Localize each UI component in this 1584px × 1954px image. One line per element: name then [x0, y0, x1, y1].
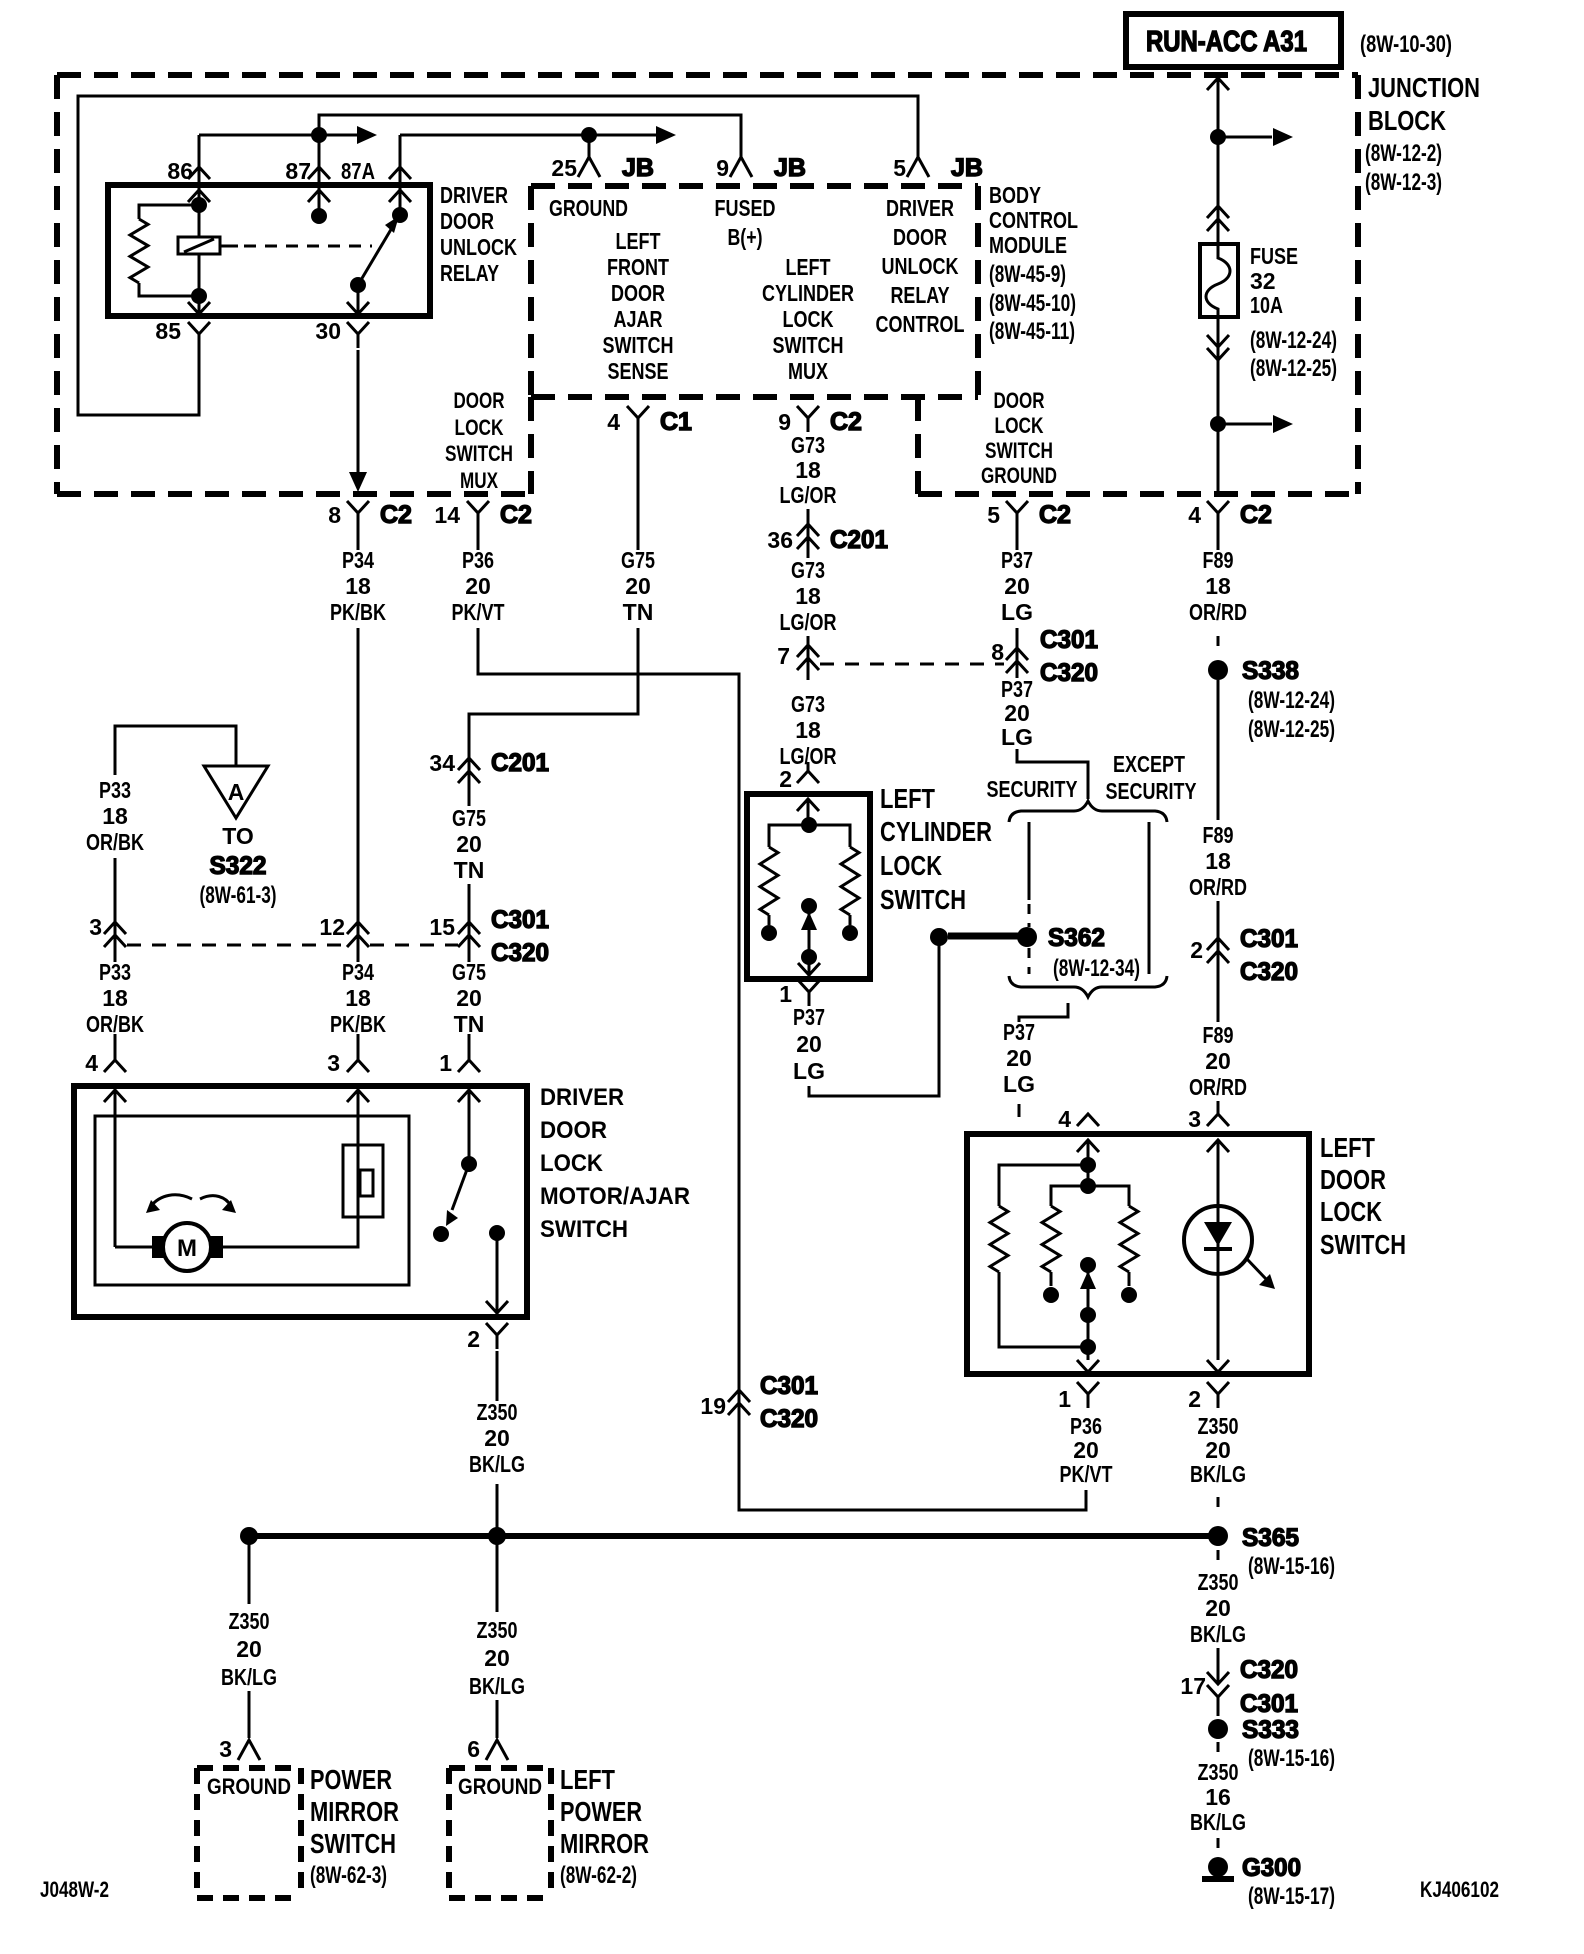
dashed connector line C301/C320 left [127, 944, 458, 947]
wire cylinder pin1 to S362 [809, 945, 939, 1096]
sheet number J048W-2 [40, 1877, 109, 1902]
connector pin 4 C2 [1188, 501, 1272, 550]
svg-text:20: 20 [1205, 1595, 1231, 1621]
wire label F89 18 OR/RD upper [1189, 547, 1247, 625]
wire brace to P37 label [1019, 1003, 1068, 1022]
svg-text:LOCK: LOCK [783, 306, 834, 332]
wire relay 30 to JB edge [349, 350, 367, 492]
svg-text:F89: F89 [1203, 547, 1234, 573]
junction dot below S362 link [930, 928, 948, 946]
wire motor pin 3 internal [223, 1145, 358, 1247]
svg-text:C320: C320 [1240, 1656, 1298, 1684]
wire label P37 20 LG cyl [793, 1004, 825, 1084]
svg-text:34: 34 [429, 750, 455, 776]
svg-text:TN: TN [623, 599, 654, 625]
svg-text:36: 36 [767, 527, 793, 553]
svg-text:18: 18 [1205, 848, 1231, 874]
svg-text:LOCK: LOCK [455, 415, 504, 440]
svg-text:G73: G73 [791, 691, 825, 717]
svg-text:DOOR: DOOR [611, 280, 665, 306]
wire label P36 20 PK/VT [452, 547, 505, 625]
svg-text:AJAR: AJAR [614, 306, 663, 332]
wire label G73 18 LG/OR 3 [780, 691, 837, 769]
wire label G75 20 TN upper [621, 547, 655, 625]
left cylinder lock switch box [747, 794, 870, 979]
svg-text:PK/VT: PK/VT [1060, 1461, 1113, 1487]
svg-text:TO: TO [222, 823, 254, 849]
svg-text:UNLOCK: UNLOCK [440, 234, 517, 260]
left power mirror label [560, 1764, 649, 1889]
svg-text:(8W-15-16): (8W-15-16) [1248, 1745, 1335, 1772]
wire P37 to security brace [1017, 749, 1088, 799]
wire cylinder to pin 1 [798, 957, 820, 977]
svg-text:DOOR: DOOR [994, 388, 1045, 413]
lock switch mid-right contact dot [1121, 1287, 1137, 1303]
svg-text:G73: G73 [791, 557, 825, 583]
svg-text:PK/VT: PK/VT [452, 599, 505, 625]
svg-text:TN: TN [454, 857, 485, 883]
fuse 32 10A [1200, 244, 1238, 317]
svg-text:DRIVER: DRIVER [540, 1084, 624, 1111]
wire label P37 20 LG lower [1003, 1019, 1035, 1097]
svg-text:18: 18 [345, 573, 371, 599]
svg-text:8: 8 [328, 502, 341, 528]
security option left wire [1028, 822, 1031, 927]
svg-text:C201: C201 [491, 749, 549, 777]
svg-text:FUSED: FUSED [715, 195, 776, 221]
motor pin 4 [85, 1050, 126, 1102]
svg-text:C301: C301 [760, 1372, 818, 1400]
svg-text:JB: JB [622, 154, 654, 182]
svg-text:(8W-45-11): (8W-45-11) [989, 318, 1075, 345]
svg-text:M: M [177, 1235, 197, 1262]
svg-text:C2: C2 [500, 501, 532, 529]
wire label P34 18 PK/BK lower [330, 959, 386, 1037]
security option bottom brace [1009, 976, 1167, 997]
motor pin 2 [467, 1323, 508, 1401]
connector pin 4 C1 [607, 406, 692, 550]
svg-text:SWITCH: SWITCH [880, 884, 966, 915]
svg-text:P34: P34 [342, 959, 374, 985]
wire pin 87A to JB pin 25 with arrow [400, 126, 676, 144]
svg-text:LOCK: LOCK [880, 850, 942, 881]
splice S362 [1017, 924, 1140, 982]
LED circle [1184, 1206, 1252, 1274]
ajar switch contact dot pin 1 [461, 1156, 477, 1172]
LED triangle [1204, 1222, 1232, 1249]
svg-text:SWITCH: SWITCH [540, 1216, 628, 1243]
svg-text:87A: 87A [341, 158, 375, 184]
wire to power mirror switch [248, 1691, 251, 1738]
svg-text:10A: 10A [1250, 292, 1283, 318]
svg-text:S362: S362 [1048, 924, 1105, 952]
svg-text:4: 4 [1058, 1106, 1071, 1132]
svg-text:30: 30 [315, 318, 341, 344]
svg-text:6: 6 [467, 1736, 480, 1762]
svg-text:G75: G75 [621, 547, 655, 573]
svg-text:20: 20 [456, 831, 482, 857]
svg-text:BLOCK: BLOCK [1368, 105, 1446, 136]
cylinder switch pin 2 [779, 766, 819, 811]
svg-text:C320: C320 [1040, 659, 1098, 687]
svg-text:18: 18 [1205, 573, 1231, 599]
svg-text:LG/OR: LG/OR [780, 482, 837, 508]
svg-text:18: 18 [795, 717, 821, 743]
relay pin 87 [285, 135, 330, 216]
svg-text:C301: C301 [491, 906, 549, 934]
off-page connector A to S322 [204, 766, 268, 818]
motor pin 1 [439, 1050, 480, 1102]
junction dot fuse lower [1210, 416, 1226, 432]
svg-text:CONTROL: CONTROL [876, 311, 965, 337]
branch arrow lower [1218, 415, 1293, 433]
svg-text:DOOR: DOOR [440, 208, 494, 234]
svg-text:3: 3 [1188, 1106, 1201, 1132]
svg-text:20: 20 [484, 1425, 510, 1451]
wire to connector 17 [1217, 1648, 1220, 1684]
label SECURITY [987, 776, 1078, 802]
wire stub to JB pin 25 [588, 135, 591, 157]
svg-text:9: 9 [716, 155, 729, 181]
svg-text:LG: LG [1001, 599, 1033, 625]
BCM pin label DOOR LOCK SWITCH GROUND [981, 388, 1057, 488]
wire link to S362 [948, 933, 1020, 940]
svg-text:1: 1 [439, 1050, 452, 1076]
svg-text:LEFT: LEFT [786, 254, 831, 280]
connector pin 34 C201 [429, 749, 549, 783]
svg-text:GROUND: GROUND [207, 1774, 291, 1799]
svg-text:LG/OR: LG/OR [780, 609, 837, 635]
svg-text:KJ406102: KJ406102 [1420, 1877, 1499, 1902]
svg-text:25: 25 [551, 155, 577, 181]
svg-text:(8W-45-10): (8W-45-10) [989, 290, 1076, 317]
BCM pin label LEFT FRONT DOOR AJAR SWITCH SENSE [603, 228, 674, 384]
svg-text:JUNCTION: JUNCTION [1368, 72, 1480, 103]
relay label DRIVER DOOR UNLOCK RELAY [440, 182, 517, 286]
svg-text:MODULE: MODULE [989, 232, 1067, 258]
svg-text:LG: LG [793, 1058, 825, 1084]
svg-text:G300: G300 [1242, 1854, 1301, 1882]
svg-text:OR/RD: OR/RD [1189, 874, 1247, 900]
wire label Z350 20 BK/LG S365 [1190, 1569, 1246, 1647]
wire motor pin2 Z350 label [469, 1399, 525, 1477]
cylinder lock switch label [880, 783, 992, 915]
ajar switch arm [446, 1164, 469, 1226]
svg-text:F89: F89 [1203, 822, 1234, 848]
lock switch wiper low dot [1080, 1339, 1096, 1355]
relay switch contact 87A dot [392, 207, 408, 223]
svg-text:POWER: POWER [310, 1764, 392, 1795]
svg-text:DOOR: DOOR [540, 1117, 607, 1144]
svg-text:4: 4 [1188, 502, 1201, 528]
svg-text:RUN-ACC A31: RUN-ACC A31 [1146, 26, 1307, 58]
svg-text:S322: S322 [210, 852, 267, 880]
ajar switch contact dot [433, 1226, 449, 1242]
lock switch wiper dot [1080, 1257, 1096, 1273]
cylinder left resistor [760, 825, 809, 925]
svg-text:C2: C2 [1240, 501, 1272, 529]
svg-text:DOOR: DOOR [1320, 1164, 1386, 1195]
svg-text:1: 1 [1058, 1386, 1071, 1412]
relay K1 driver door unlock relay box [108, 185, 430, 316]
wire label P37 20 LG upper [1001, 547, 1033, 625]
svg-text:12: 12 [319, 914, 345, 940]
svg-text:P34: P34 [342, 547, 374, 573]
svg-text:16: 16 [1205, 1784, 1231, 1810]
wire label F89 18 OR/RD mid [1189, 822, 1247, 900]
motor pin 3 [327, 1050, 369, 1102]
relay coil resistor [130, 205, 199, 296]
svg-text:SECURITY: SECURITY [1106, 778, 1197, 804]
lock switch dot upper [1080, 1157, 1096, 1173]
wire dash to S338 [1217, 636, 1220, 652]
svg-text:(8W-15-17): (8W-15-17) [1248, 1883, 1335, 1910]
svg-text:(8W-12-2): (8W-12-2) [1365, 140, 1442, 167]
svg-text:C1: C1 [660, 408, 692, 436]
wire label P34 18 PK/BK upper [330, 547, 386, 625]
svg-text:BK/LG: BK/LG [221, 1664, 277, 1690]
svg-text:18: 18 [795, 457, 821, 483]
JB pin 25 [551, 154, 654, 182]
svg-text:F89: F89 [1203, 1022, 1234, 1048]
connector pin 17 C320/C301 [1180, 1656, 1298, 1718]
wire dash to G300 [1217, 1838, 1220, 1854]
wire label Z350 20 BK/LG right [1190, 1413, 1246, 1487]
svg-text:C301: C301 [1240, 925, 1298, 953]
wire G73 mid [807, 636, 810, 680]
svg-text:20: 20 [1004, 700, 1030, 726]
driver door lock motor box [74, 1086, 527, 1317]
svg-text:MIRROR: MIRROR [310, 1796, 399, 1827]
svg-text:C2: C2 [830, 408, 862, 436]
svg-text:BK/LG: BK/LG [1190, 1461, 1246, 1487]
svg-text:18: 18 [102, 803, 128, 829]
connector pin 7 C301/C320 [777, 643, 819, 670]
wire motor pin 2 to splice [496, 1484, 499, 1536]
svg-text:17: 17 [1180, 1673, 1206, 1699]
svg-text:(8W-12-25): (8W-12-25) [1248, 716, 1335, 743]
relay pin 86 [167, 135, 210, 205]
wire label G73 18 LG/OR 2 [780, 557, 837, 635]
svg-text:SWITCH: SWITCH [985, 438, 1053, 463]
splice S338 [1208, 657, 1335, 743]
junction dot fuse feed upper [1210, 129, 1226, 145]
svg-text:S338: S338 [1242, 657, 1299, 685]
junction dot center [488, 1527, 506, 1545]
lock switch pin 1 exit [1058, 1360, 1099, 1412]
JB pin 5 [893, 154, 983, 182]
wire motor pin 4 internal [115, 1246, 152, 1249]
body control module dashed box [531, 186, 978, 397]
security option top brace [1009, 801, 1167, 822]
svg-text:GROUND: GROUND [458, 1774, 542, 1799]
lock switch wiper mid dot [1080, 1307, 1096, 1323]
svg-text:BODY: BODY [989, 182, 1041, 208]
svg-text:P33: P33 [99, 959, 131, 985]
svg-text:Z350: Z350 [1198, 1413, 1239, 1439]
svg-text:LOCK: LOCK [540, 1150, 604, 1177]
svg-text:BK/LG: BK/LG [1190, 1621, 1246, 1647]
JB pin 9 [716, 154, 806, 182]
wire to left power mirror [496, 1700, 499, 1738]
wire to lock switch pin 3 [1217, 1101, 1220, 1360]
svg-text:(8W-45-9): (8W-45-9) [989, 261, 1066, 288]
wire center ground drop [496, 1536, 499, 1612]
svg-text:Z350: Z350 [229, 1608, 270, 1634]
connector pin 9 C2 [778, 406, 862, 436]
cylinder switch common dot [801, 817, 817, 833]
wire fuse to pin 4 C2 [1217, 424, 1220, 494]
svg-text:GROUND: GROUND [981, 463, 1057, 488]
BCM pin label DRIVER DOOR UNLOCK RELAY CONTROL [876, 195, 965, 337]
wire relay 85 to BCM pin 5 relay control loop [78, 96, 918, 415]
svg-text:(8W-62-3): (8W-62-3) [310, 1862, 387, 1889]
svg-text:PK/BK: PK/BK [330, 599, 386, 625]
wire P33 to connector 3 [114, 858, 117, 962]
svg-text:JB: JB [951, 154, 983, 182]
svg-text:SWITCH: SWITCH [445, 441, 513, 466]
svg-text:(8W-12-24): (8W-12-24) [1250, 327, 1337, 354]
junction block dashed outline [57, 75, 1358, 494]
svg-text:BK/LG: BK/LG [469, 1451, 525, 1477]
svg-text:P36: P36 [462, 547, 494, 573]
LED arrow [1246, 1258, 1275, 1289]
dashed connector line 7 to 8 [820, 663, 1004, 666]
wire RUN-ACC feed into junction block [1207, 75, 1229, 137]
svg-text:MUX: MUX [460, 468, 498, 493]
svg-text:SWITCH: SWITCH [310, 1828, 396, 1859]
svg-text:19: 19 [700, 1393, 726, 1419]
left power mirror pin 6 [467, 1736, 508, 1762]
motor inner assembly box [95, 1116, 409, 1285]
wire label P36 20 PK/VT lower [1060, 1413, 1113, 1487]
lock switch dot second [1080, 1178, 1096, 1194]
svg-text:3: 3 [219, 1736, 232, 1762]
wire G75 to motor pin 1 [468, 1034, 471, 1164]
svg-text:20: 20 [1073, 1437, 1099, 1463]
lock switch pin 3 [1188, 1106, 1229, 1152]
wire label P37 20 LG mid [1001, 676, 1033, 750]
branch arrow upper [1218, 128, 1293, 146]
cylinder wiper dot [801, 898, 817, 914]
svg-text:MUX: MUX [788, 358, 829, 384]
svg-text:87: 87 [285, 158, 311, 184]
svg-text:OR/BK: OR/BK [86, 1011, 144, 1037]
BCM label [989, 182, 1078, 345]
svg-text:RELAY: RELAY [891, 282, 950, 308]
svg-text:SWITCH: SWITCH [1320, 1229, 1406, 1260]
svg-text:FRONT: FRONT [607, 254, 669, 280]
lock switch pin 4 [1058, 1106, 1099, 1152]
svg-text:G73: G73 [791, 432, 825, 458]
svg-text:DOOR: DOOR [454, 388, 505, 413]
svg-text:P36: P36 [1070, 1413, 1102, 1439]
svg-text:(8W-61-3): (8W-61-3) [200, 882, 277, 909]
svg-text:20: 20 [456, 985, 482, 1011]
svg-text:2: 2 [467, 1326, 480, 1352]
splice dot left [240, 1527, 258, 1545]
cylinder right resistor [809, 825, 859, 925]
svg-text:20: 20 [796, 1031, 822, 1057]
wire P37 to connector 8 [1016, 628, 1019, 678]
svg-text:C2: C2 [1039, 501, 1071, 529]
power mirror switch label [310, 1764, 399, 1889]
connector pin 3 C301/C320 [89, 914, 126, 947]
connector pin 12 C301/C320 [319, 914, 369, 947]
svg-text:C201: C201 [830, 526, 888, 554]
connector pin 19 C301/C320 [700, 1372, 818, 1433]
wire label F89 20 OR/RD lower [1189, 1022, 1247, 1100]
lock switch pin 2 exit [1188, 1360, 1229, 1412]
BCM pin label FUSED B(+) [715, 195, 776, 250]
svg-text:LEFT: LEFT [880, 783, 935, 814]
svg-text:86: 86 [167, 158, 193, 184]
wire P36 to left door lock switch pin 1 [478, 628, 1086, 1510]
svg-text:RELAY: RELAY [440, 260, 499, 286]
svg-text:P37: P37 [1001, 547, 1033, 573]
svg-text:A: A [228, 779, 245, 805]
svg-text:18: 18 [102, 985, 128, 1011]
wire pin 87 to JB pin 9 fused B(+) [319, 115, 741, 157]
svg-text:P33: P33 [99, 777, 131, 803]
svg-text:FUSE: FUSE [1250, 243, 1298, 269]
wire label Z350 16 BK/LG [1190, 1759, 1246, 1835]
svg-text:20: 20 [1205, 1048, 1231, 1074]
svg-text:2: 2 [779, 766, 792, 792]
cylinder lower dot [801, 949, 817, 965]
junction dot at pin 25 branch [581, 127, 597, 143]
svg-text:SWITCH: SWITCH [773, 332, 844, 358]
wire stub to lock switch pin 4 [1018, 1104, 1021, 1117]
connector pin 15 C301/C320 [429, 906, 549, 967]
lock switch wiper arm [1080, 1265, 1096, 1360]
svg-text:(8W-62-2): (8W-62-2) [560, 1862, 637, 1889]
BCM pin label GROUND [549, 195, 628, 221]
svg-text:7: 7 [777, 643, 790, 669]
relay pin 87A [341, 135, 411, 215]
svg-text:2: 2 [1188, 1386, 1201, 1412]
svg-text:OR/RD: OR/RD [1189, 1074, 1247, 1100]
label EXCEPT SECURITY [1106, 751, 1197, 804]
connector pin 5 C2 [987, 501, 1071, 550]
svg-text:LOCK: LOCK [995, 413, 1044, 438]
wire ajar switch to pin 2 [486, 1233, 508, 1315]
wire label Z350 20 BK/LG left [221, 1608, 277, 1690]
svg-text:1: 1 [779, 981, 792, 1007]
svg-text:LG: LG [1001, 724, 1033, 750]
wire G75 to connector 15 [468, 884, 471, 962]
svg-text:BK/LG: BK/LG [469, 1673, 525, 1699]
power mirror switch pin 3 [219, 1736, 260, 1762]
svg-text:(8W-12-34): (8W-12-34) [1053, 955, 1140, 982]
svg-text:20: 20 [1004, 573, 1030, 599]
fuse label [1250, 243, 1337, 382]
connector pin 36 C201 [767, 524, 888, 554]
svg-text:MIRROR: MIRROR [560, 1828, 649, 1859]
wire G73 upper [807, 509, 810, 558]
svg-text:20: 20 [1006, 1045, 1032, 1071]
svg-text:3: 3 [89, 914, 102, 940]
svg-text:S365: S365 [1242, 1524, 1299, 1552]
wire label G73 18 LG/OR 1 [780, 432, 837, 508]
connector pin 2 C301/C320 [1190, 925, 1298, 986]
splice S365 [1208, 1524, 1335, 1580]
wire G75 to connector 34 [469, 628, 638, 806]
security option left wire dashed [1028, 948, 1031, 974]
svg-text:PK/BK: PK/BK [330, 1011, 386, 1037]
svg-text:SENSE: SENSE [608, 358, 669, 384]
svg-text:CYLINDER: CYLINDER [762, 280, 854, 306]
